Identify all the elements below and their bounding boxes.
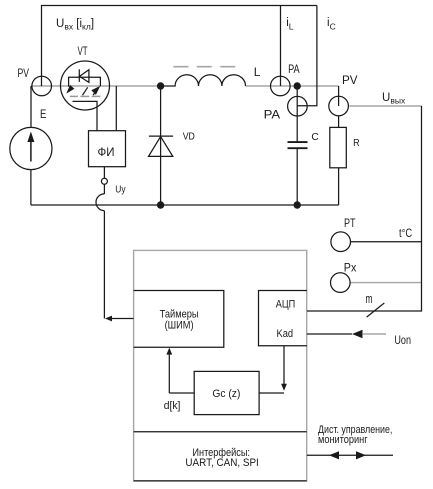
svg-text:Uвх [iкл]: Uвх [iкл] [56, 18, 94, 32]
svg-text:R: R [353, 137, 360, 149]
svg-text:iL: iL [286, 17, 294, 31]
svg-text:E: E [40, 107, 46, 121]
svg-text:t°C: t°C [399, 226, 412, 240]
svg-text:C: C [311, 131, 319, 143]
svg-text:Px: Px [344, 262, 357, 274]
svg-text:iC: iC [327, 17, 336, 31]
svg-text:d[k]: d[k] [164, 400, 181, 412]
svg-text:VT: VT [78, 46, 88, 58]
svg-text:Gc (z): Gc (z) [212, 388, 240, 400]
svg-text:L: L [254, 67, 261, 79]
svg-text:PV: PV [18, 68, 30, 80]
svg-text:Uon: Uon [394, 335, 411, 347]
svg-text:UART, CAN, SPI: UART, CAN, SPI [185, 457, 258, 469]
svg-text:Uвых: Uвых [382, 92, 406, 105]
svg-text:Uy: Uy [115, 184, 126, 196]
svg-text:m: m [366, 291, 373, 306]
svg-text:Kad: Kad [277, 328, 294, 340]
svg-text:мониторинг: мониторинг [318, 434, 368, 446]
svg-text:PA: PA [288, 64, 300, 76]
svg-text:PA: PA [264, 109, 281, 121]
svg-text:VD: VD [183, 130, 196, 142]
svg-text:PV: PV [342, 75, 358, 87]
svg-text:(ШИМ): (ШИМ) [165, 320, 194, 332]
svg-text:PT: PT [344, 216, 356, 230]
svg-text:АЦП: АЦП [276, 298, 295, 310]
svg-text:ФИ: ФИ [98, 145, 115, 159]
